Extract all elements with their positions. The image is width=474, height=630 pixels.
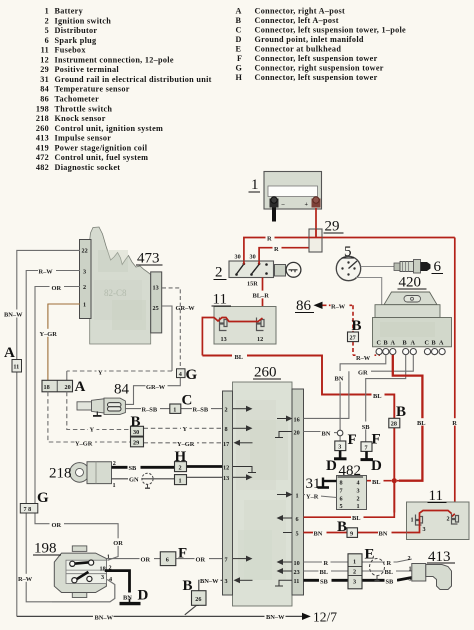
svg-text:11: 11 [41,46,49,55]
label BN-W at pin3 [200,576,221,585]
svg-text:Positive terminal: Positive terminal [55,65,120,74]
svg-text:SB: SB [129,465,138,472]
label BL mid run [373,391,385,400]
svg-text:BN: BN [322,431,331,438]
svg-text:Y: Y [98,369,103,376]
svg-text:413: 413 [36,134,49,143]
label R-W [38,267,56,276]
svg-text:30: 30 [235,254,241,261]
svg-text:GN: GN [129,477,139,484]
svg-text:86: 86 [296,298,312,314]
svg-text:SB: SB [386,579,395,586]
connector F box 3 [335,441,346,451]
label GR [357,368,371,377]
svg-text:11: 11 [294,578,300,585]
svg-text:Tachometer: Tachometer [55,95,100,104]
260 pin 5 [283,530,299,537]
svg-text:12: 12 [40,55,49,64]
label 1 [249,177,261,193]
svg-text:12: 12 [257,336,263,343]
svg-text:2: 2 [357,496,360,503]
temperature sensor 84 [77,398,125,416]
svg-text:2: 2 [408,555,411,562]
260 pin 8 [225,425,253,433]
svg-text:SB: SB [320,579,329,586]
svg-text:7: 7 [340,488,343,495]
connector F box 6 [160,552,176,566]
label 420 [398,275,427,291]
svg-text:13: 13 [221,336,227,343]
connector F box 7 [361,442,372,452]
svg-text:28: 28 [391,421,397,428]
svg-text:B: B [183,578,193,594]
svg-text:C: C [377,340,381,347]
svg-text:Y–GR: Y–GR [75,440,93,447]
label R-W at 86 [331,302,350,311]
svg-text:17: 17 [223,441,229,448]
svg-text:15R: 15R [247,281,258,288]
svg-text:5: 5 [340,503,343,510]
wire Y dashed from A cell20 down to B box30 then 260 pin8 [67,392,223,430]
260 pin 3 [225,577,253,585]
svg-text:1: 1 [411,517,414,524]
connector G pins 7 8 box [20,504,38,514]
label Y right of box30 [181,424,190,433]
svg-text:GR–W: GR–W [176,305,196,312]
svg-text:A: A [391,340,396,347]
svg-text:13: 13 [153,285,159,292]
svg-text:Connector, right suspension to: Connector, right suspension tower [255,64,384,73]
label R-SB right [192,405,211,414]
wire GN from 218 pin1 via shield and H1 to 260 pin13 [112,477,223,479]
svg-text:Distributor: Distributor [55,26,98,35]
svg-text:18: 18 [44,384,50,391]
svg-text:Control unit, fuel system: Control unit, fuel system [55,153,149,162]
label R right of E [385,558,394,567]
svg-text:260: 260 [36,124,49,133]
label OR right of F6 [195,555,210,564]
svg-text:BL: BL [320,569,329,576]
wire BL-R from ignition 15R down to fusebox [262,278,264,319]
wire BL thick from 420 A1 down right side [393,355,423,481]
svg-text:BN: BN [335,375,344,382]
wire R from 29 right to right bus [322,237,455,239]
svg-text:1: 1 [357,503,360,510]
wire BN-W from 260 pin3 via B26 to bottom run [185,580,223,615]
svg-text:R–W: R–W [356,355,371,362]
label 11 bottom fusebox [428,488,447,504]
connector H box 1 [175,475,187,485]
svg-text:472: 472 [36,153,49,162]
svg-text:1: 1 [296,492,299,499]
svg-text:BL: BL [373,393,382,400]
label BL right of E [384,567,397,576]
connector G pin 4 box [177,369,186,378]
impulse sensor 413 [412,564,452,590]
svg-text:Battery: Battery [55,7,84,16]
svg-text:12: 12 [223,464,229,471]
svg-text:31: 31 [306,476,321,492]
wire OR from 198 pin1 via F6 to 260 pin7 [106,558,222,560]
svg-text:D: D [371,458,382,474]
label 482 [338,463,364,479]
svg-text:F: F [237,54,242,63]
svg-text:198: 198 [36,104,49,113]
svg-text:198: 198 [34,541,57,557]
connector A box cells 18 20 [42,380,73,392]
svg-text:29: 29 [133,440,139,447]
svg-text:30: 30 [250,254,256,261]
svg-text:B: B [396,404,406,420]
svg-text:12/7: 12/7 [313,610,337,625]
260 pin 11 [275,578,299,586]
label 2 [214,265,227,281]
svg-text:GR: GR [358,369,368,376]
label 6 [432,259,444,275]
label 11 top fusebox [212,292,232,308]
svg-text:7: 7 [365,444,368,451]
svg-text:84: 84 [114,382,130,398]
label Y-R [305,492,321,501]
wire BN-W bottom run to 12/7 [17,615,302,617]
svg-text:F: F [372,432,381,448]
battery 1 [264,172,322,222]
connector B box 26 [192,591,207,606]
svg-text:G: G [186,367,198,383]
svg-text:3: 3 [338,444,341,451]
svg-text:BN–W: BN–W [266,614,285,621]
260 pin 12 [223,464,256,472]
junction node BL [392,478,397,483]
svg-text:8: 8 [340,480,343,487]
svg-text:Y–R: Y–R [306,494,319,501]
svg-text:1: 1 [45,7,49,16]
svg-text:BL: BL [385,569,394,576]
label OR at 198 [112,538,127,547]
svg-text:Power stage/ignition coil: Power stage/ignition coil [55,143,148,152]
shield symbol on GN wire [142,473,153,488]
svg-text:3: 3 [353,579,356,586]
diagnostic socket 482 [337,476,367,511]
wire GR-W from 473 pin13 down through G4 to 84 sensor [125,288,180,405]
label 413 [427,549,455,565]
throttle switch 198 [52,546,115,602]
svg-text:20: 20 [65,384,71,391]
svg-text:B: B [131,414,141,430]
label OR mid [50,520,65,529]
label BN at pin20 [321,429,334,438]
svg-text:R: R [267,236,272,243]
wire R from 29 left to ignition 30 [244,238,309,262]
ignition switch contact stubs [244,261,259,265]
wire BL from junction down to 260 pin6 [304,483,395,517]
svg-text:1: 1 [173,406,176,413]
svg-text:SB: SB [362,424,371,431]
svg-text:R: R [274,246,279,253]
svg-text:Connector at bulkhead: Connector at bulkhead [255,45,342,54]
svg-text:OR: OR [196,557,206,564]
svg-text:2: 2 [353,569,356,576]
connector C box 1 [170,404,181,413]
svg-text:18: 18 [100,565,106,572]
svg-text:Fusebox: Fusebox [55,46,87,55]
svg-text:Connector, left suspension tow: Connector, left suspension tower [255,73,378,82]
svg-text:E: E [365,547,375,563]
label R second [273,244,282,253]
svg-text:1: 1 [179,477,182,484]
wire SB from 420 B2 down to F7 and ground D [366,355,406,442]
svg-text:Y: Y [183,426,188,433]
wire BL from junction right to A1 bus corner [397,480,423,482]
svg-text:D: D [138,588,149,604]
svg-text:7 8: 7 8 [24,506,32,513]
svg-text:482: 482 [36,163,49,172]
260 pin 20 [275,429,300,437]
knock sensor 218 [70,462,112,484]
svg-text:Connector, left suspension tow: Connector, left suspension tower, 1–pole [255,26,407,35]
svg-text:Impulse sensor: Impulse sensor [55,134,112,143]
svg-text:A: A [411,340,416,347]
label BN-W on left wire [3,310,27,319]
svg-text:25: 25 [153,305,159,312]
svg-text:C: C [236,26,242,35]
label R-W at 420 [356,353,375,362]
svg-text:82-C8: 82-C8 [104,288,127,298]
svg-text:Control unit, ignition system: Control unit, ignition system [55,124,164,133]
wire R right bus from 29 to fusebox 11 [454,238,456,514]
svg-text:3: 3 [83,269,86,276]
svg-text:BN–W: BN–W [4,312,23,319]
label BN left of B9 [313,529,327,538]
svg-text:6: 6 [340,496,343,503]
svg-text:9: 9 [350,530,353,537]
svg-text:C: C [182,393,193,409]
svg-text:R–W: R–W [18,576,33,583]
wire BL from junction to 482 pin4 [367,480,392,482]
fusebox 11 bottom right [407,502,470,540]
label 5 [342,244,355,260]
svg-text:218: 218 [36,114,49,123]
wire from distributor down to 420 [355,278,382,305]
power stage 420 [373,292,452,347]
wire BN from 260 pin5 via B9 to fusebox 11 [304,532,420,534]
label Y-GR [39,329,59,338]
svg-text:Ignition switch: Ignition switch [55,16,112,25]
wire R from 29 left to ignition 30 second [259,248,309,261]
svg-text:29: 29 [40,65,49,74]
svg-text:84: 84 [40,85,49,94]
svg-text:29: 29 [325,219,340,235]
wire Y-R from 260 pin1 to 482 pin6 [304,495,337,498]
svg-text:Connector, left A–post: Connector, left A–post [255,16,339,25]
svg-text:BN: BN [314,531,323,538]
svg-text:6: 6 [434,259,442,275]
wire BN-W from 473 pin22 down left side [17,250,80,616]
svg-text:R–W: R–W [331,304,346,311]
label BN on vertical [334,374,347,383]
connector B box 29 [131,437,144,447]
svg-text:4: 4 [109,576,112,583]
svg-text:C: C [425,340,429,347]
wire BN from 260 pin20 to 1-pole connector [304,432,338,433]
svg-text:23: 23 [294,569,300,576]
label 260 [253,365,281,381]
svg-text:6: 6 [45,36,49,45]
svg-text:1: 1 [353,559,356,566]
connector E boxes 1 2 3 [348,554,362,589]
label R on right bus [451,418,459,427]
svg-text:419: 419 [36,143,49,152]
svg-text:R: R [324,560,329,567]
svg-text:8: 8 [225,426,228,433]
control unit 260 (ignition system) [223,382,304,606]
label BL-R [252,291,273,300]
svg-text:Temperature sensor: Temperature sensor [55,85,130,94]
svg-text:A: A [75,379,86,395]
label SB [128,463,141,472]
positive terminal 29 [309,229,322,252]
svg-text:Connector, left suspension tow: Connector, left suspension tower [255,54,378,63]
svg-text:Y–GR: Y–GR [177,441,195,448]
svg-text:31: 31 [40,75,49,84]
svg-text:Y–GR: Y–GR [40,331,58,338]
svg-text:16: 16 [294,416,300,423]
wire Y dashed from 473 pin25 to connector A cell20 [67,306,172,380]
svg-text:G: G [37,490,49,506]
svg-text:D: D [326,458,337,474]
wire R from 260 pin10 to E1 [304,559,412,562]
ground D at 198 [120,602,141,605]
svg-text:2: 2 [215,265,223,281]
shield symbol at E [370,559,385,581]
svg-text:BL: BL [417,420,426,427]
svg-text:Instrument connection, 12–pole: Instrument connection, 12–pole [55,55,174,64]
wire R-W from 473 pin3 down to 198 housing [26,271,115,602]
svg-text:Connector, right A–post: Connector, right A–post [255,6,346,15]
arrow to 12/7 [302,610,337,625]
label OR left of F6 [140,555,155,564]
label R [266,234,275,243]
svg-text:D: D [236,35,242,44]
label 473 [136,251,163,267]
svg-text:Y: Y [90,427,95,434]
svg-text:473: 473 [137,251,160,267]
svg-text:11: 11 [429,488,443,504]
svg-text:BL–R: BL–R [253,293,270,300]
wire Y-GR dashed from A cell18 down to B box29 then 260 pin17 [48,392,223,443]
svg-text:4: 4 [179,371,182,378]
svg-text:3: 3 [101,574,104,581]
label SB on vertical [361,422,373,431]
260 pin 17 [223,440,253,448]
svg-text:BN–W: BN–W [200,578,219,585]
svg-text:Knock sensor: Knock sensor [55,114,106,123]
svg-text:26: 26 [195,596,201,603]
260 pin 2 [225,406,253,414]
svg-text:B: B [236,16,242,25]
svg-text:Ground rail in electrical dist: Ground rail in electrical distribution u… [55,75,212,84]
svg-text:13: 13 [223,475,229,482]
svg-text:6: 6 [296,516,299,523]
label BL at pin6 [351,513,364,522]
svg-text:B: B [337,519,347,535]
connector B box 27 [348,332,359,342]
svg-text:A: A [439,340,444,347]
svg-text:20: 20 [294,429,300,436]
260 pin 1 [277,492,299,500]
wire SB thick from 218 pin2 via H2 to 260 pin12 [112,465,223,469]
wire R-SB from 84 to C1 box to 260 pin2 [125,408,222,410]
connector B box 28 [389,418,400,428]
svg-text:BN–W: BN–W [95,614,114,621]
svg-text:G: G [236,64,243,73]
svg-text:OR: OR [113,540,123,547]
connector B box 30 [131,426,144,436]
svg-text:OR: OR [141,557,151,564]
svg-text:H: H [236,73,243,82]
svg-text:22: 22 [82,248,88,255]
label Y left of box30 [88,425,97,434]
svg-text:1: 1 [83,302,86,309]
svg-text:2: 2 [225,407,228,414]
legend left column [36,7,212,172]
label BL at fusebox out [234,352,247,361]
svg-text:1: 1 [251,177,259,193]
connector C 1-pole circle [337,430,343,436]
svg-text:86: 86 [40,95,49,104]
svg-text:R–SB: R–SB [142,407,158,414]
ground D below F3 [334,451,347,459]
svg-text:Spark plug: Spark plug [55,36,98,45]
svg-text:GR–W: GR–W [146,384,166,391]
svg-text:BN: BN [123,595,132,602]
ground D below F7 [361,451,374,459]
svg-text:B: B [384,340,388,347]
260 pin 13 [223,474,253,482]
wire Y-GR from 473 pin1 down to connector A cell18 [48,304,80,380]
svg-text:1: 1 [113,482,116,489]
label GR-W lower [146,382,168,391]
label GR-W at 473 pin25 wire [175,303,197,312]
260 pin 10 [277,559,300,567]
svg-text:3: 3 [357,488,360,495]
label R-SB left [141,405,160,414]
svg-text:4: 4 [357,480,360,487]
svg-text:5: 5 [296,530,299,537]
svg-text:F: F [348,432,357,448]
svg-text:R: R [452,420,457,427]
spark plug 6 [394,260,431,274]
svg-text:7: 7 [225,556,228,563]
260 pin 6 [277,515,299,523]
wire R-W dashed from 86 to connector B27 and 420 C1 [323,305,380,355]
svg-text:1: 1 [409,566,412,573]
svg-text:R–SB: R–SB [193,407,209,414]
label GN [128,475,142,484]
svg-text:2: 2 [83,284,86,291]
connector H box 2 [175,462,187,472]
ignition switch 2 [229,261,274,278]
svg-text:A: A [4,345,15,361]
svg-text:BL: BL [372,479,381,486]
420 terminal letters C B A / B A / C B A [377,340,445,347]
svg-text:11: 11 [13,364,19,371]
red wire inside bottom fusebox [407,511,455,533]
label BL on A1 vertical [416,418,429,427]
wire GR from 420 A2 to 260 pin16 [304,355,414,419]
wire BL from fusebox to right [202,356,394,513]
260 pin 23 [277,568,300,576]
